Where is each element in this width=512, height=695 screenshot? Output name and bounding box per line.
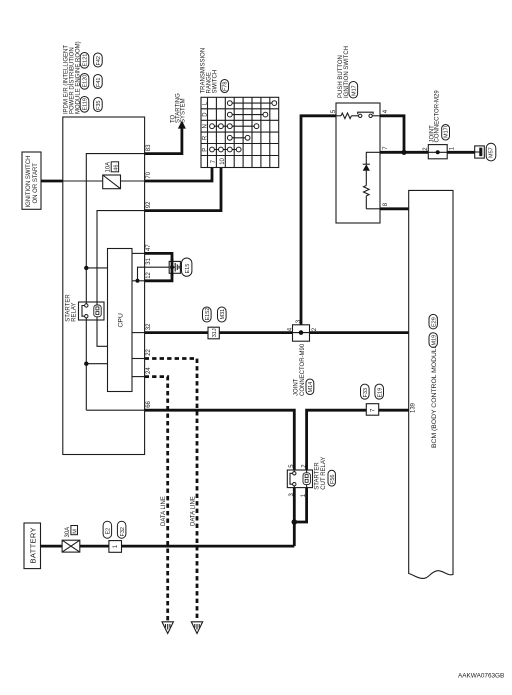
svg-text:E29: E29 (431, 317, 437, 327)
TRS contact row R (227, 135, 250, 140)
svg-text:M: M (73, 529, 79, 534)
TRS contact row L (227, 101, 276, 106)
connector label E15 (182, 258, 192, 276)
resistor in diode branch (364, 186, 370, 209)
connector label M17 (349, 82, 358, 99)
ignition switch (ON or START) (22, 152, 41, 209)
svg-text:ON OR START: ON OR START (33, 163, 39, 204)
svg-text:83: 83 (146, 144, 152, 151)
IPDM E/R label (63, 41, 81, 114)
svg-text:IGNITION SWITCH: IGNITION SWITCH (26, 156, 32, 208)
connector label F35 (94, 98, 103, 112)
starter relay (79, 302, 105, 320)
wire: TRS pin 10 to IPDM pin 92 (145, 168, 221, 211)
wire: pin 12 to ground connector (145, 273, 172, 281)
wire: connector to starter cut relay (122, 545, 295, 548)
connector label E19 (375, 384, 384, 399)
svg-text:M14: M14 (308, 382, 314, 393)
svg-text:E152: E152 (205, 308, 211, 321)
data line arrow (right) (191, 622, 202, 634)
splice 7 (F33/E19) (366, 404, 378, 416)
push button ignition switch M17 (336, 103, 380, 223)
TRS contact row P (210, 147, 242, 152)
svg-text:DATA LINE: DATA LINE (161, 496, 167, 526)
wire: M90 up to push button pin 5 (301, 116, 336, 325)
connector label F41 (94, 75, 103, 89)
junction dot (84, 362, 88, 366)
svg-text:JOINT: JOINT (294, 378, 300, 396)
splice 31J (208, 327, 219, 339)
svg-text:10: 10 (220, 157, 226, 164)
svg-text:F78: F78 (223, 82, 229, 91)
svg-text:N: N (203, 124, 209, 128)
joint connector M90 label (294, 343, 306, 396)
wire: CPU pin 22 data line (132, 358, 145, 360)
svg-text:E19: E19 (377, 388, 383, 398)
wire: pin 83 to starting system (145, 128, 182, 154)
svg-text:10A: 10A (106, 162, 112, 173)
joint connector M29 label (429, 90, 440, 143)
svg-text:F32: F32 (120, 527, 126, 536)
TRS label (201, 48, 219, 94)
svg-text:31: 31 (146, 257, 152, 264)
svg-text:CONNECTOR-M90: CONNECTOR-M90 (300, 343, 306, 396)
data line from pin 24 (dashed) (145, 377, 168, 621)
connector label E119 (80, 97, 89, 113)
junction dot (401, 150, 406, 155)
wire: to pin 66 inside IPDM (86, 409, 144, 411)
wire: to pin 8 (366, 208, 380, 210)
wire: contact line branch to CPU (upper) (86, 267, 107, 269)
connector label E120 (80, 74, 89, 90)
svg-text:SYSTEM: SYSTEM (180, 98, 186, 123)
svg-text:F56: F56 (330, 475, 336, 484)
svg-text:46: 46 (113, 165, 119, 171)
svg-text:M170: M170 (444, 124, 450, 138)
wire: pin 8 to BCM pin 88 (380, 207, 409, 210)
wire: pin 7 internal (366, 152, 380, 164)
wire: ignition switch to IPDM (41, 180, 63, 183)
wire: CPU pin 32 to BCM pin 89 (132, 332, 145, 334)
TRS contact row N (210, 124, 259, 129)
junction dot (136, 279, 140, 283)
arrow to starting system (178, 121, 186, 129)
svg-text:E2: E2 (106, 528, 112, 535)
joint connector M29 (428, 145, 447, 159)
svg-text:M31: M31 (220, 309, 226, 320)
TRS contact row D (227, 112, 267, 117)
junction dot (292, 519, 298, 525)
wire: relay pin 1 to junction (294, 488, 306, 522)
svg-text:24: 24 (146, 367, 152, 374)
connector label M14 (306, 379, 314, 395)
svg-text:47: 47 (146, 244, 152, 251)
CPU U1 (108, 249, 133, 392)
svg-text:D: D (203, 112, 209, 117)
svg-text:DATA LINE: DATA LINE (190, 496, 196, 526)
svg-text:CONNECTOR-M29: CONNECTOR-M29 (435, 90, 441, 143)
wire: starter relay contact up to pin 83 (86, 154, 144, 302)
svg-text:E121: E121 (83, 54, 89, 67)
connector label F56 (328, 470, 336, 486)
svg-text:F35: F35 (96, 101, 102, 110)
svg-text:70: 70 (146, 171, 152, 178)
wire: pin 7 to joint connector M29 (380, 151, 428, 154)
svg-text:66: 66 (146, 400, 152, 407)
wire: relay contact bottom, branch to CPU (85, 320, 87, 410)
connector label E152 (203, 307, 212, 322)
TRS row labels P R N D L (203, 101, 209, 151)
connector label M31 (218, 307, 227, 322)
transmission range switch grid (201, 97, 279, 167)
connector label M19 (429, 333, 437, 348)
connector M57 symbol (475, 146, 485, 158)
TRS pin numbers 7 and 10 (211, 157, 226, 164)
svg-text:12: 12 (146, 271, 152, 278)
starter relay label (66, 294, 78, 322)
wire: M29 to M57 (447, 151, 475, 154)
resistor in push button switch (336, 113, 359, 119)
wire: pin 92 to starter relay coil (97, 211, 145, 302)
label TO STARTING SYSTEM (171, 93, 187, 123)
svg-text:M57: M57 (488, 147, 494, 158)
svg-text:M17: M17 (351, 85, 357, 96)
svg-text:R: R (203, 135, 209, 140)
fuse number 46 (111, 162, 119, 172)
diode D1 (363, 164, 370, 185)
wire: relay coil bottom to CPU (97, 320, 108, 346)
wire: CPU pin 24 data line (132, 376, 145, 378)
svg-text:22: 22 (146, 348, 152, 355)
svg-text:SWITCH: SWITCH (213, 70, 219, 94)
BCM (body control module) (409, 190, 453, 578)
svg-text:F41: F41 (96, 78, 102, 87)
fuse 10A (103, 175, 121, 189)
push button switch contacts (358, 112, 380, 117)
wire: pin 70 to TRS pin 7 (145, 168, 212, 182)
connector label E2 (103, 521, 112, 538)
svg-text:30A: 30A (65, 527, 71, 538)
connector E2/F32 pin 1 (109, 541, 122, 553)
starter cut relay F56 (287, 470, 312, 488)
svg-text:AAKWA0763GB: AAKWA0763GB (458, 673, 504, 680)
svg-text:CPU: CPU (117, 313, 124, 327)
IPDM E/R box (63, 117, 145, 455)
svg-text:BATTERY: BATTERY (28, 527, 37, 563)
svg-text:E119: E119 (83, 98, 89, 110)
data line arrow (left) (162, 622, 173, 634)
connector label E29 (429, 314, 437, 329)
svg-text:F42: F42 (96, 56, 102, 65)
push button ignition switch label (338, 46, 350, 98)
connector label M170 (442, 124, 450, 140)
wire: fuse to IPDM pin 70 (121, 180, 145, 182)
wire: relay pin 3 down to junction (293, 488, 296, 546)
connector label F42 (94, 53, 103, 67)
svg-text:139: 139 (411, 402, 417, 413)
svg-text:STARTER: STARTER (315, 462, 321, 490)
wire: battery to fusible link (41, 545, 63, 548)
svg-text:F33: F33 (363, 388, 369, 397)
junction dot (84, 266, 88, 270)
svg-text:E120: E120 (83, 75, 89, 88)
connector label F32 (117, 521, 126, 538)
ground connector E15 (169, 258, 180, 277)
fusible link 30A (62, 540, 80, 552)
battery (24, 523, 41, 569)
svg-text:BCM (BODY CONTROL MODULE): BCM (BODY CONTROL MODULE) (431, 342, 438, 449)
wire: pin 4 to junction (380, 116, 404, 153)
data line from pin 22 (dashed) (145, 359, 197, 621)
wire: pin 47 to ground connector (145, 253, 172, 261)
svg-text:92: 92 (146, 201, 152, 208)
wire: IPDM entry to fuse (63, 180, 103, 182)
svg-text:E15: E15 (185, 264, 191, 274)
fusible link letter M (71, 526, 79, 535)
connector label E121 (80, 53, 89, 69)
connector label F33 (361, 384, 370, 399)
svg-text:32: 32 (146, 323, 152, 330)
svg-text:M19: M19 (431, 335, 437, 346)
wire: fusible link to connector (80, 545, 109, 548)
connector label F78 (221, 80, 229, 93)
svg-text:RELAY: RELAY (72, 303, 78, 322)
svg-text:31J: 31J (212, 328, 218, 337)
svg-text:P: P (203, 148, 209, 152)
connector label M57 (486, 143, 496, 161)
starter cut relay label (315, 457, 327, 490)
wire: CPU to pin 47 (132, 252, 145, 254)
svg-text:CUT RELAY: CUT RELAY (321, 457, 327, 490)
joint connector M90 (293, 325, 310, 341)
wire: CPU to pin 12 with stub to pin 31 (132, 267, 172, 281)
